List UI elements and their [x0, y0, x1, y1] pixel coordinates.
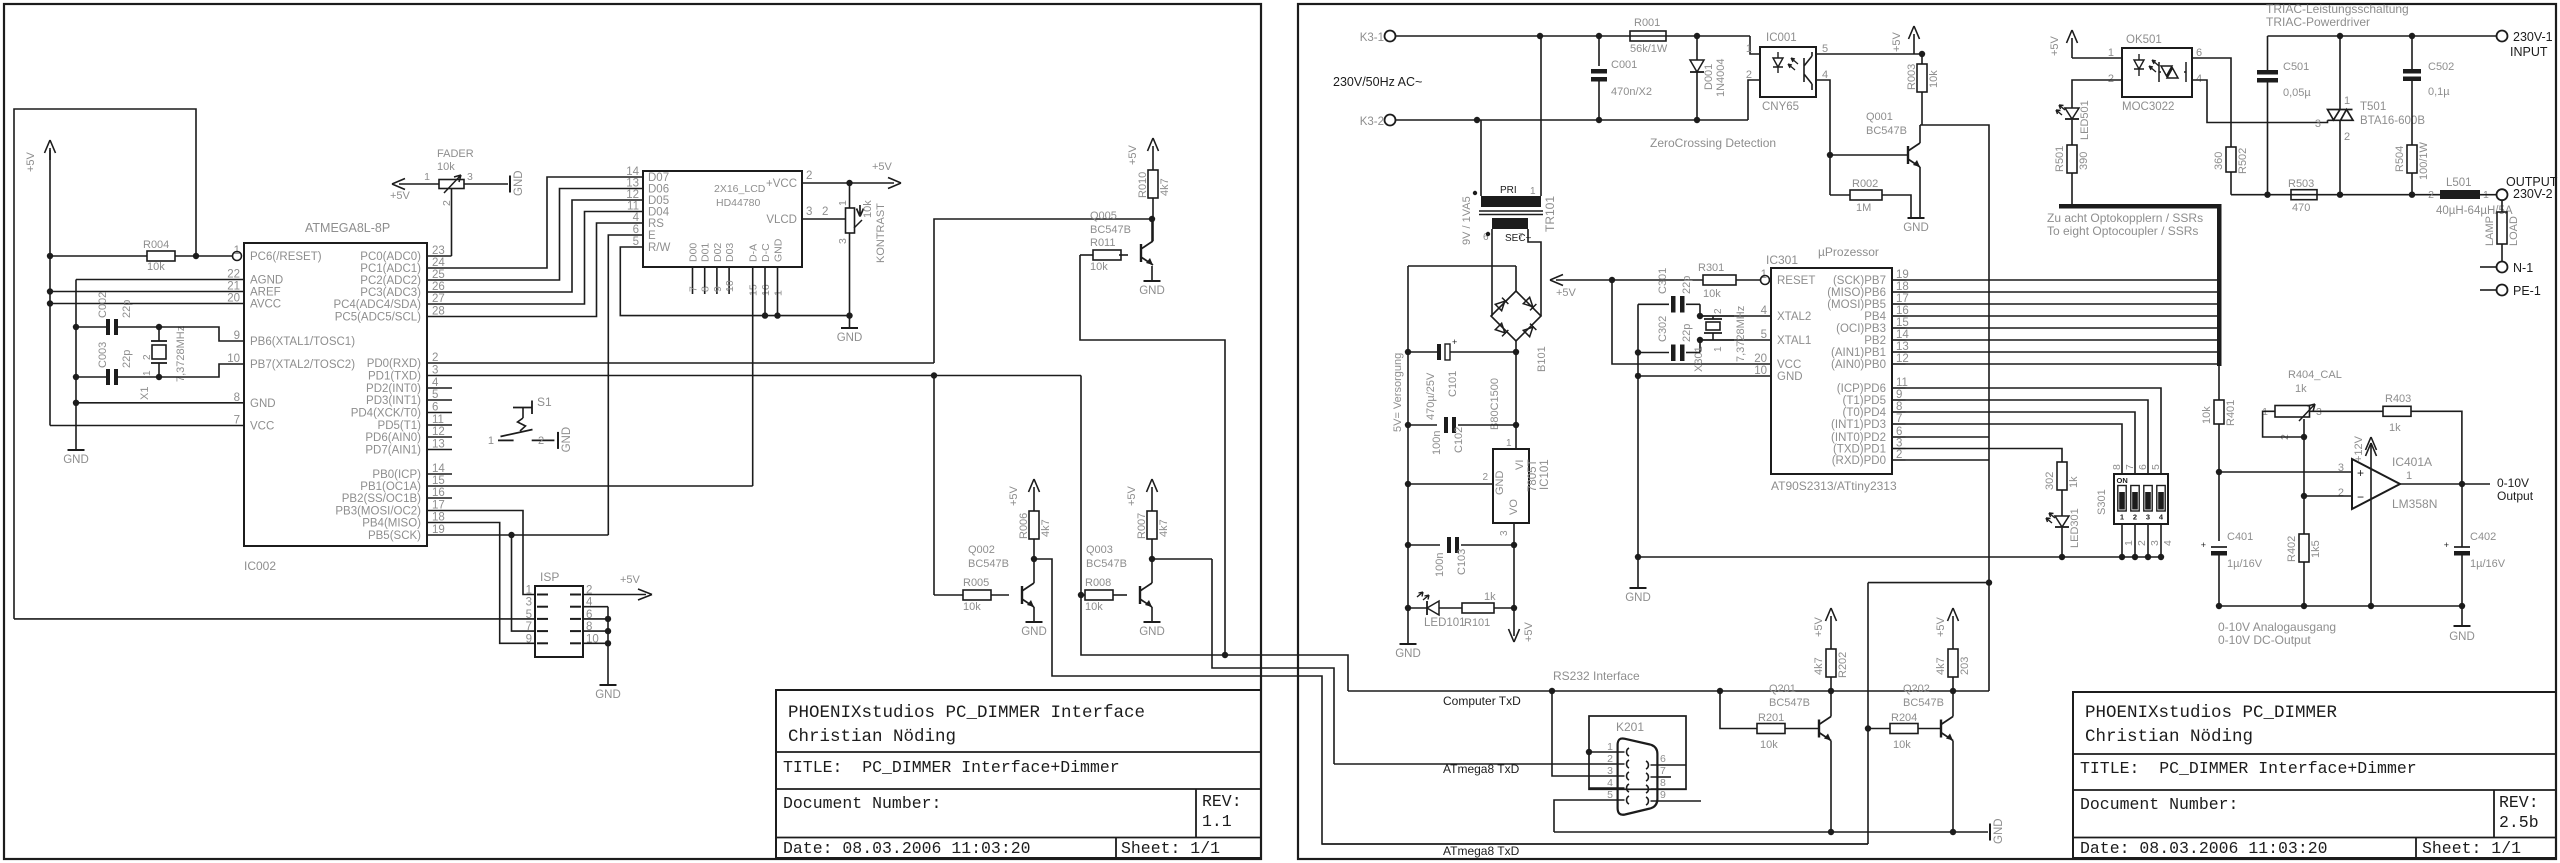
svg-text:AT90S2313/ATtiny2313: AT90S2313/ATtiny2313	[1771, 479, 1897, 493]
resistor R008 10k	[1085, 590, 1113, 600]
svg-text:GND: GND	[595, 689, 621, 701]
svg-text:+5V: +5V	[1813, 616, 1825, 637]
ground at ISP	[600, 684, 617, 686]
svg-text:3: 3	[1499, 530, 1510, 536]
svg-text:5: 5	[633, 236, 639, 248]
svg-text:2: 2	[2136, 540, 2148, 546]
svg-text:Computer TxD: Computer TxD	[1443, 694, 1521, 708]
K201 pin3 stub	[1589, 775, 1618, 777]
svg-text:R502: R502	[2237, 148, 2249, 174]
svg-text:BC547B: BC547B	[1903, 697, 1944, 709]
wire GND rail to DIP switch	[1638, 556, 2161, 558]
svg-text:LAMP: LAMP	[2484, 216, 2496, 246]
svg-text:+: +	[2444, 540, 2449, 550]
svg-text:10k: 10k	[1893, 739, 1911, 751]
svg-text:7: 7	[688, 286, 700, 292]
wire Q001 base network	[1816, 80, 1830, 195]
svg-text:PB2: PB2	[1864, 335, 1886, 347]
svg-text:13: 13	[626, 178, 639, 190]
ground at Q001	[1908, 217, 1925, 219]
svg-text:56k/1W: 56k/1W	[1630, 43, 1668, 55]
svg-text:XTAL1: XTAL1	[1777, 335, 1811, 347]
svg-text:10: 10	[227, 353, 240, 365]
wire PB5 bus line	[1906, 303, 2217, 305]
svg-text:GND: GND	[1395, 648, 1421, 660]
svg-text:1k: 1k	[2068, 476, 2080, 488]
svg-text:5: 5	[2150, 464, 2162, 470]
resistor R006 4k7	[1029, 511, 1039, 539]
svg-text:203: 203	[1959, 657, 1971, 675]
svg-text:C001: C001	[1611, 59, 1637, 71]
+5V supply arrow left	[49, 148, 51, 160]
resistor R403 1k	[2383, 406, 2411, 416]
svg-text:C501: C501	[2283, 61, 2309, 73]
pin stubs unconnected IC002	[427, 387, 452, 389]
svg-text:Sheet: 1/1: Sheet: 1/1	[1121, 839, 1220, 858]
svg-text:VLCD: VLCD	[766, 214, 797, 226]
wire Q002 collector to right sheet	[1034, 559, 1868, 844]
wire op-amp minus input	[2304, 495, 2352, 497]
svg-text:To eight Optocoupler / SSRs: To eight Optocoupler / SSRs	[2047, 224, 2198, 238]
svg-text:2X16_LCD: 2X16_LCD	[714, 183, 766, 195]
svg-text:D001: D001	[1703, 64, 1715, 90]
svg-text:(AIN1)PB1: (AIN1)PB1	[1831, 347, 1886, 359]
svg-text:0,1µ: 0,1µ	[2428, 86, 2450, 98]
svg-text:(INT0)PD2: (INT0)PD2	[1831, 432, 1886, 444]
svg-text:R101: R101	[1464, 617, 1490, 629]
svg-text:100n: 100n	[1434, 553, 1446, 577]
svg-text:GND: GND	[2449, 631, 2475, 643]
svg-text:9: 9	[1660, 789, 1666, 801]
svg-text:D07: D07	[648, 172, 669, 184]
svg-text:R008: R008	[1085, 577, 1111, 589]
svg-text:C002: C002	[97, 292, 109, 318]
wire PB1 OC1A to LCD backlight D-A	[427, 485, 753, 487]
svg-text:3: 3	[526, 597, 532, 609]
svg-text:Q001: Q001	[1866, 111, 1893, 123]
pin circle IC301 reset	[1761, 276, 1770, 285]
svg-text:2: 2	[2108, 73, 2114, 85]
svg-text:AGND: AGND	[250, 275, 283, 287]
wire IC101 GND pin to rail	[1408, 483, 1493, 485]
svg-text:ATmega8 TxD: ATmega8 TxD	[1443, 762, 1520, 776]
svg-text:CNY65: CNY65	[1762, 101, 1799, 113]
svg-text:(T0)PD4: (T0)PD4	[1843, 407, 1887, 419]
resistor R007 4k7	[1147, 511, 1157, 539]
wire op-amp plus input	[2219, 471, 2352, 473]
capacitor C002 22p	[76, 326, 108, 328]
svg-text:10k: 10k	[1703, 288, 1721, 300]
K201 pin4 stub	[1589, 787, 1618, 789]
wire XTAL1 net	[1700, 340, 1771, 353]
svg-text:D00: D00	[688, 243, 700, 262]
ground at IC301	[1637, 557, 1639, 588]
wire PB5 SCK net	[427, 534, 608, 536]
ground at fader rotated	[509, 176, 511, 193]
resistor R502 360	[2226, 147, 2236, 172]
svg-text:1: 1	[837, 200, 849, 206]
wire K3-2 line	[1395, 119, 1748, 121]
svg-text:VO: VO	[1508, 499, 1520, 515]
wire analog output ground rail	[2219, 605, 2462, 607]
svg-text:HD44780: HD44780	[716, 197, 761, 209]
connector K201 DB9	[1589, 716, 1686, 789]
svg-text:C101: C101	[1447, 371, 1459, 397]
svg-text:+5V: +5V	[2049, 35, 2061, 56]
svg-text:X1: X1	[139, 387, 151, 400]
svg-text:2: 2	[2338, 487, 2344, 499]
wire R204 riser	[1867, 583, 1869, 844]
wire R404 pin1 to wiper node	[2263, 411, 2304, 437]
svg-text:3: 3	[806, 206, 812, 218]
svg-text:0-10V: 0-10V	[2497, 476, 2529, 490]
svg-text:GND: GND	[1903, 222, 1929, 234]
wire bridge bottom to 5V rail	[1515, 341, 1517, 352]
svg-text:5: 5	[526, 609, 532, 621]
svg-text:20: 20	[227, 293, 240, 305]
KONTRAST potentiometer 10k	[849, 183, 851, 208]
svg-text:XTAL2: XTAL2	[1777, 311, 1811, 323]
capacitor C402 1u/16V	[2461, 484, 2463, 547]
wire left supply rail	[1407, 266, 1409, 644]
svg-text:µProzessor: µProzessor	[1818, 245, 1879, 259]
svg-text:S1: S1	[537, 395, 552, 409]
svg-text:TRIAC-Leistungsschaltung: TRIAC-Leistungsschaltung	[2266, 2, 2409, 16]
svg-text:FADER: FADER	[437, 148, 474, 160]
svg-text:2: 2	[2428, 189, 2434, 201]
svg-text:PD2(INT0): PD2(INT0)	[366, 383, 421, 395]
terminal 230V-2	[2497, 189, 2508, 200]
resistor R101 1k	[1439, 607, 1462, 609]
wire PD5 to S301 pin6	[1906, 400, 2148, 474]
svg-text:11: 11	[627, 201, 639, 213]
svg-text:12: 12	[626, 189, 639, 201]
wire PD4 to S301 pin7	[1906, 412, 2135, 474]
svg-text:10k: 10k	[1760, 739, 1778, 751]
resistor R301 10k	[1703, 275, 1736, 285]
left title block	[776, 690, 1261, 858]
svg-text:15: 15	[748, 284, 760, 296]
svg-text:2: 2	[822, 206, 828, 218]
svg-text:X301: X301	[1693, 346, 1705, 372]
svg-text:6: 6	[633, 224, 639, 236]
svg-text:21: 21	[227, 281, 240, 293]
svg-text:C301: C301	[1657, 268, 1669, 294]
svg-text:R503: R503	[2288, 178, 2314, 190]
wire LCD E to PB5 SCK net	[608, 235, 643, 535]
svg-text:(AIN0)PB0: (AIN0)PB0	[1831, 359, 1886, 371]
svg-text:TITLE: PC_DIMMER Interface+Di: TITLE: PC_DIMMER Interface+Dimmer	[2080, 759, 2417, 778]
svg-text:R004: R004	[143, 239, 169, 251]
svg-text:GND: GND	[1139, 626, 1165, 638]
wire GND pin10	[1638, 375, 1771, 377]
svg-text:PHOENIXstudios PC_DIMMER: PHOENIXstudios PC_DIMMER	[2085, 703, 2338, 723]
bridge rectifier B101 B80C1500	[1491, 291, 1541, 341]
LCD module 2X16_LCD HD44780	[643, 171, 802, 267]
svg-text:2: 2	[2133, 513, 2137, 522]
svg-text:Christian Nöding: Christian Nöding	[2085, 727, 2253, 747]
svg-text:GND: GND	[513, 170, 525, 196]
svg-text:AVCC: AVCC	[250, 299, 281, 311]
K201 pin1 stub	[1589, 751, 1618, 753]
wire GND pin8	[76, 402, 244, 404]
svg-text:5V= Versorgung: 5V= Versorgung	[1392, 353, 1404, 432]
svg-text:3: 3	[467, 171, 473, 183]
svg-text:Output: Output	[2497, 489, 2534, 503]
svg-text:R404_CAL: R404_CAL	[2288, 369, 2342, 381]
svg-text:Q201: Q201	[1769, 683, 1796, 695]
svg-text:+5V: +5V	[1008, 485, 1020, 506]
svg-text:R201: R201	[1758, 712, 1784, 724]
svg-text:+: +	[1452, 337, 1457, 347]
wire 230V-1 input line	[2268, 35, 2497, 37]
svg-text:+5V: +5V	[1523, 621, 1535, 642]
svg-text:ISP: ISP	[540, 570, 559, 584]
svg-text:GND: GND	[561, 427, 573, 453]
svg-text:S301: S301	[2096, 489, 2108, 515]
resistor R302 1k	[2057, 462, 2067, 490]
svg-text:BC547B: BC547B	[1086, 558, 1127, 570]
svg-text:R005: R005	[963, 577, 989, 589]
svg-text:22p: 22p	[121, 350, 133, 368]
svg-text:R301: R301	[1698, 262, 1724, 274]
svg-text:PC1(ADC1): PC1(ADC1)	[360, 263, 421, 275]
svg-text:PD5(T1): PD5(T1)	[378, 420, 422, 432]
svg-text:3: 3	[2149, 540, 2161, 546]
wire op-amp power down	[2370, 497, 2372, 606]
svg-text:C402: C402	[2470, 531, 2496, 543]
capacitor C502 0,1u	[2411, 36, 2413, 69]
svg-text:Q202: Q202	[1903, 683, 1930, 695]
svg-text:2: 2	[142, 354, 153, 360]
+5V down arrow at IC101 output	[1513, 608, 1515, 636]
svg-text:4k7: 4k7	[1935, 657, 1947, 675]
wire ATmega8 TxD to K201 pin2	[1334, 763, 1589, 765]
svg-text:R402: R402	[2286, 536, 2298, 562]
svg-text:2: 2	[1746, 69, 1752, 81]
wire PB6 bus line	[1906, 291, 2217, 293]
svg-text:(INT1)PD3: (INT1)PD3	[1831, 419, 1886, 431]
svg-text:BTA16-600B: BTA16-600B	[2360, 115, 2425, 127]
svg-text:AREF: AREF	[250, 287, 281, 299]
svg-text:R002: R002	[1852, 178, 1878, 190]
resistor R501 390	[2067, 145, 2077, 173]
svg-text:+5V: +5V	[1556, 287, 1577, 299]
svg-text:Date: 08.03.2006 11:03:20: Date: 08.03.2006 11:03:20	[2080, 839, 2328, 858]
svg-text:470: 470	[2292, 202, 2310, 214]
svg-text:Sheet: 1/1: Sheet: 1/1	[2422, 839, 2521, 858]
svg-text:IC002: IC002	[244, 559, 276, 573]
svg-text:LED501: LED501	[2079, 100, 2091, 140]
svg-text:1: 1	[1746, 43, 1752, 55]
svg-text:470n/X2: 470n/X2	[1611, 86, 1652, 98]
wire PD1 TXD long net	[427, 375, 1081, 377]
+5V arrow at R010	[1152, 146, 1154, 170]
svg-text:PB7(XTAL2/TOSC2): PB7(XTAL2/TOSC2)	[250, 359, 355, 371]
svg-text:Document Number:: Document Number:	[783, 794, 941, 813]
capacitor C501 0,05u	[2267, 36, 2269, 70]
capacitor C301 22p	[1638, 303, 1669, 305]
svg-text:IC401A: IC401A	[2392, 455, 2432, 469]
svg-text:R/W: R/W	[648, 242, 671, 254]
wire K3-1 line	[1395, 35, 1750, 37]
svg-text:22p: 22p	[1681, 276, 1693, 294]
svg-text:N-1: N-1	[2513, 261, 2533, 275]
svg-text:1: 1	[2123, 540, 2135, 546]
svg-text:PC2(ADC2): PC2(ADC2)	[360, 275, 421, 287]
svg-text:100/1W: 100/1W	[2418, 141, 2430, 180]
svg-text:C302: C302	[1657, 316, 1669, 342]
svg-text:(OCI)PB3: (OCI)PB3	[1836, 323, 1886, 335]
svg-text:R202: R202	[1837, 652, 1849, 678]
svg-text:OK501: OK501	[2126, 34, 2162, 46]
svg-text:GND: GND	[63, 454, 89, 466]
wire PD0 RXD joins INT0 riser	[1906, 459, 1989, 461]
svg-text:PB1(OC1A): PB1(OC1A)	[360, 481, 421, 493]
svg-text:GND: GND	[1139, 285, 1165, 297]
ground at Q002	[1026, 621, 1043, 623]
svg-text:R010: R010	[1137, 172, 1149, 198]
svg-text:PD7(AIN1): PD7(AIN1)	[365, 445, 421, 457]
svg-text:PB5(SCK): PB5(SCK)	[368, 530, 421, 542]
resistor R202 4k7	[1830, 677, 1832, 691]
crystal X301 7,3728MHz	[1700, 315, 1734, 317]
svg-text:(ICP)PD6: (ICP)PD6	[1837, 383, 1886, 395]
svg-text:D-A: D-A	[748, 244, 760, 262]
svg-text:1k5: 1k5	[2310, 540, 2322, 558]
svg-text:7: 7	[1518, 232, 1524, 243]
wire PB3 bus line	[1906, 327, 2217, 329]
wire TR101 SEC to bridge	[1491, 229, 1493, 316]
wire +5V to VCC pin20	[1612, 280, 1771, 364]
wire SCK branch to ISP pin7	[512, 535, 536, 631]
svg-text:PC0(ADC0): PC0(ADC0)	[360, 251, 421, 263]
resistor R204 10k	[1868, 728, 1890, 730]
wire +VCC to +5V	[802, 182, 894, 184]
left schematic sheet border	[4, 4, 1261, 859]
wire cap rail joins gnd net	[1637, 304, 1639, 376]
wire IC101 output	[1513, 523, 1515, 608]
svg-text:D04: D04	[648, 207, 670, 219]
svg-text:1µ/16V: 1µ/16V	[2227, 558, 2263, 570]
svg-text:PD3(INT1): PD3(INT1)	[366, 395, 421, 407]
svg-text:−: −	[2357, 490, 2364, 504]
wire bundle PC5 to LCD RS	[427, 223, 643, 317]
svg-text:PRI: PRI	[1500, 185, 1517, 196]
svg-text:PB2(SS/OC1B): PB2(SS/OC1B)	[342, 493, 421, 505]
svg-text:8: 8	[700, 286, 712, 292]
svg-text:6: 6	[1660, 753, 1666, 765]
wire TXD drop to Q002 base	[933, 376, 935, 596]
svg-text:PC3(ADC3): PC3(ADC3)	[360, 287, 421, 299]
capacitor C102 100n	[1408, 424, 1437, 426]
terminal K3-1	[1385, 31, 1396, 42]
svg-text:4: 4	[2162, 540, 2174, 546]
svg-text:D-C: D-C	[760, 243, 772, 262]
IC002 ATMEGA8L-8P microcontroller	[244, 243, 427, 546]
svg-text:1k: 1k	[1484, 591, 1496, 603]
pin circle PC6 reset	[233, 252, 242, 261]
svg-text:1: 1	[142, 370, 153, 376]
wire PB4 MISO to ISP pin9	[427, 523, 535, 644]
ground at LCD rail	[849, 316, 851, 328]
K201 pin5 to emitter ground rail	[1554, 800, 1618, 832]
DIP switch S301	[2114, 474, 2168, 524]
svg-text:REV:: REV:	[2499, 793, 2539, 812]
svg-text:230V-1: 230V-1	[2513, 30, 2553, 44]
svg-text:1: 1	[2344, 95, 2350, 107]
terminal N-1	[2497, 262, 2508, 273]
svg-text:7805T: 7805T	[1527, 459, 1539, 492]
svg-text:R204: R204	[1891, 712, 1917, 724]
svg-text:R007: R007	[1136, 513, 1148, 539]
wire bundle PC3 to LCD D05	[427, 200, 643, 292]
svg-text:GND: GND	[1625, 592, 1651, 604]
ground at left rail	[1400, 643, 1417, 645]
svg-text:4k7: 4k7	[1158, 519, 1170, 537]
svg-text:R003: R003	[1906, 64, 1918, 90]
svg-text:GND: GND	[1494, 471, 1506, 496]
svg-text:PD1(TXD): PD1(TXD)	[368, 371, 421, 383]
svg-text:1: 1	[1713, 346, 1724, 352]
wire bundle PC2 to LCD D06	[427, 189, 643, 281]
svg-text:10k: 10k	[147, 261, 165, 273]
wire PB7 bus line	[1906, 279, 2217, 281]
svg-text:L501: L501	[2446, 177, 2472, 189]
+5V arrow at R006	[1033, 487, 1035, 511]
right schematic sheet border	[1298, 4, 2556, 859]
svg-text:+5V: +5V	[1127, 144, 1139, 165]
diode D001 1N4004	[1696, 36, 1698, 60]
svg-text:IC101: IC101	[1539, 459, 1551, 490]
wire AGND rail	[76, 279, 244, 281]
svg-text:(T1)PD5: (T1)PD5	[1843, 395, 1886, 407]
+12V arrow at op-amp	[2370, 443, 2372, 497]
svg-text:GND: GND	[1993, 818, 2005, 844]
svg-text:2: 2	[2344, 131, 2350, 143]
svg-text:GND: GND	[772, 238, 784, 262]
ground at S1 rotated	[557, 432, 559, 449]
svg-text:+12V: +12V	[2353, 435, 2365, 462]
wire bridge top to left rail	[1515, 266, 1517, 291]
wire LCD R/W to ground rail	[620, 247, 849, 316]
capacitor C001 470n/X2	[1598, 36, 1600, 66]
svg-text:RS: RS	[648, 218, 664, 230]
+5V arrow at ISP pin2	[583, 594, 646, 596]
wire OK501 pin4 to triac gate	[2192, 80, 2328, 123]
resistor R001 56k/1W	[1630, 31, 1666, 41]
svg-text:10k: 10k	[963, 601, 981, 613]
wire VLCD to wiper	[802, 218, 845, 220]
svg-text:+5V: +5V	[1891, 31, 1903, 52]
svg-text:PC6(/RESET): PC6(/RESET)	[250, 251, 322, 263]
resistor R010 4k7	[1148, 170, 1158, 198]
capacitor C003 22p	[76, 376, 108, 378]
svg-text:Q003: Q003	[1086, 544, 1113, 556]
svg-text:10k: 10k	[1928, 70, 1940, 88]
svg-text:D05: D05	[648, 195, 669, 207]
svg-text:22: 22	[227, 269, 240, 281]
svg-text:470µ/25V: 470µ/25V	[1425, 372, 1437, 420]
svg-text:Date: 08.03.2006 11:03:20: Date: 08.03.2006 11:03:20	[783, 839, 1031, 858]
svg-text:RS232 Interface: RS232 Interface	[1553, 669, 1640, 683]
wire ISP pins 4,6,8,10 to ground	[583, 606, 608, 608]
svg-text:4k7: 4k7	[1159, 178, 1171, 196]
svg-text:10k: 10k	[862, 200, 874, 218]
svg-text:(MOSI)PB5: (MOSI)PB5	[1827, 299, 1886, 311]
inductor L501	[2440, 190, 2480, 199]
wire PD2 from Q001 zero crossing	[1906, 436, 1989, 438]
